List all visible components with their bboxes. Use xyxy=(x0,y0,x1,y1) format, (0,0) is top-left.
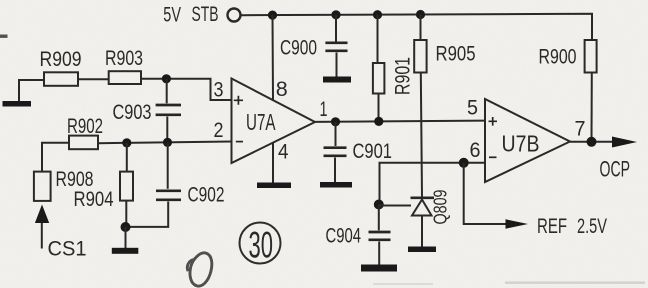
wire C904 bottom lead xyxy=(378,242,380,265)
ground under C904 xyxy=(361,265,397,272)
resistor R903 xyxy=(109,71,141,84)
resistor R909 xyxy=(44,72,78,86)
resistor R904 xyxy=(120,172,133,201)
ground below R904 xyxy=(112,248,139,254)
resistor R900 xyxy=(585,40,597,73)
wire R901 top lead xyxy=(377,15,379,63)
junction R904 top node xyxy=(122,138,131,147)
wire C900 bottom lead xyxy=(336,53,338,78)
wire Q809 to ground xyxy=(421,216,423,247)
wire C900 top lead xyxy=(335,15,337,42)
U7A minus input mark xyxy=(236,141,243,143)
capacitor C903 xyxy=(156,105,181,115)
ground under Q809 xyxy=(408,247,436,253)
wire R909 to R903 xyxy=(78,78,109,80)
wire C902 top lead xyxy=(167,143,169,189)
wire U7A pin 8 lead xyxy=(272,15,275,100)
capacitor C902 xyxy=(156,191,181,200)
wire C903 top lead xyxy=(166,79,168,104)
wire tap to Q809 xyxy=(379,205,411,207)
junction rail R905 branch xyxy=(416,10,425,19)
junction R901 bottom node xyxy=(374,117,383,126)
junction C904 top node xyxy=(374,200,384,210)
op-amp U7B xyxy=(485,99,570,182)
ground under C901 xyxy=(320,182,352,188)
ground under C900 xyxy=(323,77,351,83)
capacitor C900 xyxy=(325,43,347,51)
wire R901 bottom lead xyxy=(378,94,380,122)
wire U7A pin 4 lead xyxy=(272,143,274,183)
junction output R900 node xyxy=(587,137,597,147)
wire C903 bottom lead xyxy=(166,117,168,143)
zener diode Q809 xyxy=(411,196,435,199)
wire R905 to Q809 cathode xyxy=(421,73,422,197)
junction ground node left xyxy=(121,222,131,232)
resistor R905 xyxy=(414,40,426,73)
junction rail R901 branch xyxy=(373,10,382,19)
wire pin 2 net xyxy=(98,142,232,144)
wire R900 bottom lead xyxy=(591,73,593,142)
wire REF branch xyxy=(464,163,506,224)
wire U7B output xyxy=(570,141,612,143)
faint scan smudge bottom right xyxy=(505,282,645,284)
ground under U7A xyxy=(257,183,291,189)
arrow OCP xyxy=(612,137,637,148)
wire C904 top lead xyxy=(378,205,380,231)
arrow CS1 input xyxy=(35,205,49,224)
wire ground to R909 xyxy=(19,80,44,101)
junction rail pin8 branch xyxy=(268,11,277,20)
sheet number circle 30 xyxy=(240,223,281,264)
arrow REF xyxy=(506,219,529,228)
wire to ground below R904 xyxy=(125,227,127,248)
U7B plus input mark xyxy=(489,117,498,126)
junction C902 top node xyxy=(163,138,172,147)
wire C901 bottom lead xyxy=(334,158,336,183)
junction C901 top node xyxy=(331,117,340,126)
handwritten mark xyxy=(187,253,211,286)
junction C903 top node xyxy=(162,74,171,83)
wire C902 bottom lead xyxy=(126,202,169,227)
wire R905 top lead xyxy=(420,15,422,41)
wire R903 to U7A pin 3 xyxy=(141,79,232,100)
wire C901 top lead xyxy=(335,122,337,146)
resistor R901 xyxy=(373,63,385,94)
U7A plus input mark xyxy=(234,96,243,105)
op-amp U7A xyxy=(232,79,316,164)
wire R904 top lead xyxy=(126,143,128,172)
wire U7A output to U7B pin 5 xyxy=(315,121,485,122)
capacitor C904 xyxy=(369,232,391,240)
ground far left xyxy=(3,101,32,107)
junction rail C900 branch xyxy=(331,10,340,19)
terminal circle 5V STB xyxy=(228,9,241,22)
capacitor C901 xyxy=(324,148,347,156)
wire 5V rail xyxy=(241,14,592,40)
resistor R908 xyxy=(34,172,51,201)
wire pin 6 net xyxy=(380,163,486,205)
wire R902 left to R908 xyxy=(42,143,69,172)
junction REF tap xyxy=(459,158,469,168)
resistor R902 xyxy=(69,136,98,150)
wire R904 bottom lead xyxy=(125,201,127,227)
U7B minus input mark xyxy=(489,156,497,158)
edge mark top left xyxy=(0,35,8,38)
